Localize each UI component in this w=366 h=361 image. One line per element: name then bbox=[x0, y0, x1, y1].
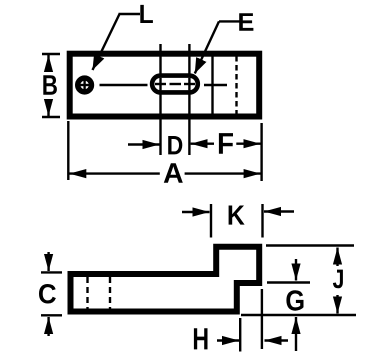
hole (circle with crosshair) bbox=[78, 78, 92, 92]
centerline hole to slot bbox=[100, 84, 148, 86]
slot E bbox=[152, 76, 198, 93]
dimension F left arrow bbox=[191, 142, 214, 144]
slot centerline dash bbox=[170, 83, 182, 85]
dimension K left arrow bbox=[182, 211, 210, 213]
dimension K right extension bbox=[261, 204, 263, 238]
dimension C arrows bbox=[47, 252, 49, 271]
interior hidden edge (dashed) bbox=[235, 56, 237, 114]
leader E bbox=[195, 21, 240, 73]
dimension G arrows bbox=[295, 259, 297, 281]
label L bbox=[140, 5, 153, 23]
front view hidden line 2 bbox=[109, 277, 111, 309]
slot right center mark bbox=[184, 78, 195, 91]
dimension D arrow bbox=[128, 143, 160, 145]
dimension A line left with arrow bbox=[69, 172, 160, 174]
label E bbox=[239, 13, 253, 31]
dimension F right arrow bbox=[236, 142, 260, 144]
front view outline bbox=[71, 247, 260, 312]
extension line H right bbox=[261, 289, 263, 349]
label J bbox=[333, 270, 343, 289]
extension line slot left center (D) bbox=[159, 44, 161, 155]
extension line A/F right bbox=[260, 123, 262, 181]
slot left center mark bbox=[155, 78, 166, 91]
label C bbox=[39, 284, 56, 304]
extension line slot right center (D/F) bbox=[188, 44, 190, 155]
label K bbox=[229, 206, 245, 225]
centerline right of slot bbox=[204, 84, 227, 86]
interior visible edge line bbox=[211, 55, 213, 115]
dimension K right arrow bbox=[264, 210, 294, 212]
label H bbox=[194, 328, 208, 349]
label F bbox=[219, 133, 233, 154]
dimension C ticks bbox=[41, 271, 62, 273]
front view hidden line 1 bbox=[86, 277, 88, 309]
dimension J arrows bbox=[336, 248, 338, 267]
extension line G top bbox=[267, 281, 310, 283]
dimension H arrow bbox=[217, 339, 239, 341]
dimension A line right with arrow bbox=[185, 172, 261, 174]
dimension H right arrow bbox=[265, 339, 289, 341]
dimension B arrows bbox=[47, 55, 49, 72]
extension line A left bbox=[67, 121, 69, 180]
label B bbox=[43, 75, 57, 95]
label G bbox=[286, 290, 303, 311]
dimension K left extension bbox=[210, 204, 212, 238]
extension line J top bbox=[266, 244, 354, 246]
top view outline bbox=[70, 54, 260, 117]
dimension B ticks bbox=[42, 53, 60, 55]
extension line J/G bottom bbox=[241, 314, 356, 316]
extension line H left (step) bbox=[239, 318, 241, 352]
label A bbox=[164, 163, 183, 183]
leader L bbox=[93, 14, 141, 70]
label D bbox=[168, 136, 182, 154]
